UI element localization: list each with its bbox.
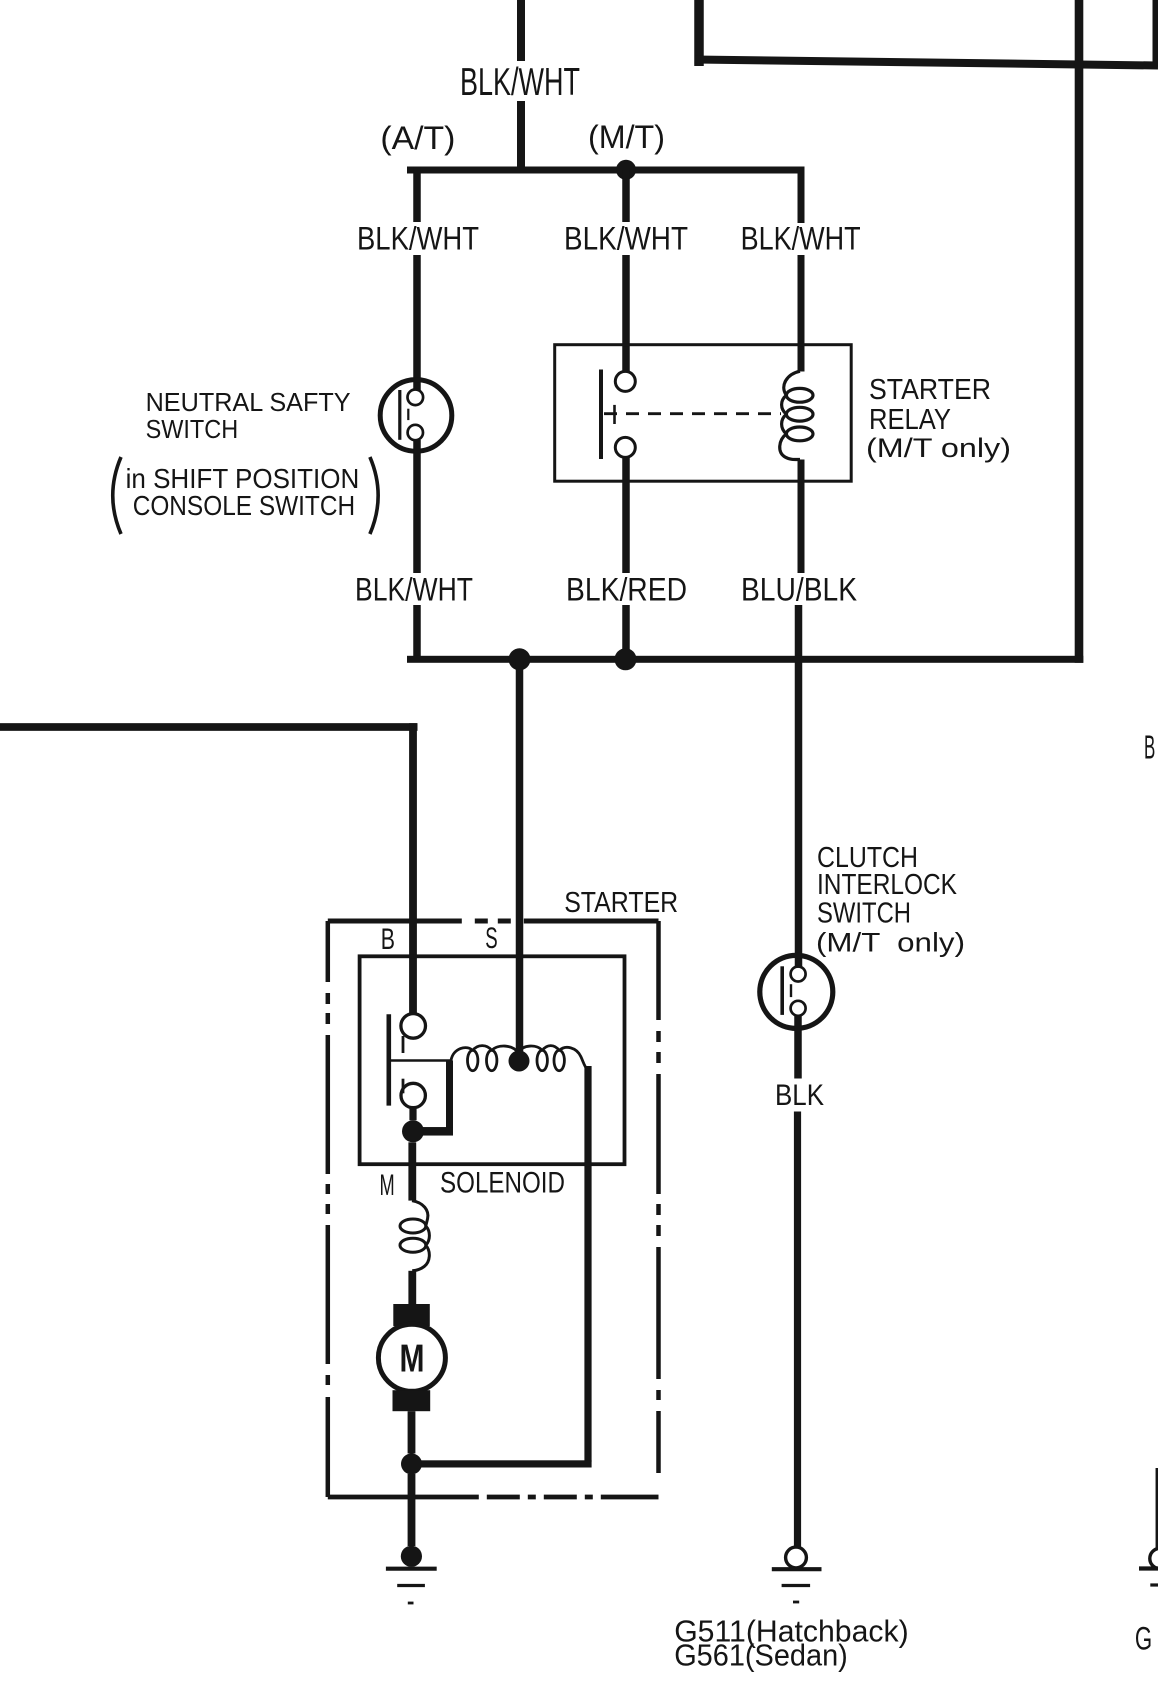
wire right vertical trunk [1075,0,1084,663]
starter enclosure chain-line box [328,921,659,1497]
solenoid pull-in coil [391,1059,451,1062]
svg-text:(M/T only): (M/T only) [816,928,965,958]
wire top-right horizontal to right edge (slight scan tilt) [695,60,1158,66]
wire neutral safety switch to bus [413,440,421,573]
svg-text:B: B [381,923,395,956]
wire A/T branch to neutral safety switch [413,255,421,391]
ground connector circle (right edge, cut) [1150,1548,1158,1568]
svg-text:S: S [485,922,497,955]
junction dot motor return [401,1453,422,1474]
wire relay coil down (BLU/BLK) [798,460,805,574]
svg-text:G: G [1135,1620,1152,1656]
junction dot S wire to coil [509,1051,530,1072]
svg-text:BLK: BLK [775,1079,824,1112]
wire left feed horizontal (battery) [0,723,418,731]
svg-text:RELAY: RELAY [869,404,951,436]
wire M contact to junction [409,1108,416,1121]
svg-text:BLU/BLK: BLU/BLK [741,572,857,608]
relay coil [780,371,813,459]
junction dot BLK/RED at bus [615,648,637,670]
motor field coil [400,1201,429,1271]
wire S terminal from bus to solenoid coil [516,662,524,1061]
clutch interlock switch symbol [760,955,833,1028]
svg-text:SWITCH: SWITCH [146,414,239,444]
junction dot bus to starter S [509,648,531,670]
motor armature [393,1304,430,1326]
bus horizontal A/T-M/T split [407,167,805,174]
parenthesis left (shift position note) [113,457,121,534]
wire ignition feed upper (BLK/WHT) [517,0,525,61]
wire M terminal to field coil [408,1142,416,1200]
solenoid box [360,956,625,1164]
wire M/T branch to relay contact [622,255,630,373]
ground symbol right edge (cut) [1139,1569,1158,1586]
svg-text:SOLENOID: SOLENOID [440,1167,565,1200]
svg-text:CONSOLE SWITCH: CONSOLE SWITCH [133,490,355,521]
wire ignition feed lower [517,101,525,174]
wire BLK to ground [794,1112,801,1548]
wire M/T branch upper stub [622,170,630,222]
svg-text:B: B [1144,728,1155,765]
junction dot M terminal [402,1120,424,1142]
parenthesis right (shift position note) [370,457,378,534]
svg-text:BLK/WHT: BLK/WHT [357,221,479,257]
svg-text:G561(Sedan): G561(Sedan) [674,1638,848,1673]
svg-text:STARTER: STARTER [564,887,678,919]
svg-text:NEUTRAL SAFTY: NEUTRAL SAFTY [146,387,351,417]
svg-text:(M/T): (M/T) [588,119,665,155]
svg-text:(A/T): (A/T) [380,120,455,156]
wire coil output L-shape to M contact [446,1061,453,1136]
bus lower horizontal [407,656,1083,663]
wire to bus left end [413,605,421,659]
wire relay-coil branch upper stub [798,167,805,224]
svg-text:M: M [380,1169,395,1202]
starter relay box [555,345,852,482]
svg-text:M: M [400,1337,425,1380]
svg-text:INTERLOCK: INTERLOCK [817,869,957,901]
wire junction to starter ground [408,1474,416,1546]
wire coil tail down and across to motor [584,1066,591,1462]
wire relay contact down (BLK/RED) [622,457,630,573]
svg-text:STARTER: STARTER [869,374,991,406]
ground connector circle (clutch) [786,1547,807,1568]
wire motor to junction [408,1411,416,1453]
wire BLK/RED to bus junction [622,605,630,659]
junction dot at (M/T) split [616,160,636,180]
ground symbol starter [386,1569,437,1603]
solenoid contacts B and M [389,1014,426,1108]
wire field coil to motor [408,1271,416,1304]
ground symbol clutch G511/G561 [772,1569,822,1602]
wire to relay coil [798,255,805,372]
svg-text:SWITCH: SWITCH [817,898,911,930]
svg-text:BLK/WHT: BLK/WHT [355,572,473,608]
relay actuation dashed line [604,412,781,415]
wire right edge stub to ground (cut off) [1156,1468,1158,1549]
wire battery feed down to starter B terminal [409,723,417,1015]
svg-text:BLK/RED: BLK/RED [566,572,687,608]
wire A/T branch upper stub [413,167,421,223]
wire clutch switch down [794,1016,802,1079]
wire top-right branch vertical [694,0,704,66]
svg-text:BLK/WHT: BLK/WHT [741,221,861,257]
ground connection dot (starter) [401,1546,422,1567]
wire right-edge stub (cut off) [1153,0,1158,66]
relay switch contacts [601,370,635,460]
svg-text:(M/T only): (M/T only) [866,433,1011,463]
wire BLU/BLK through bus to clutch interlock switch [795,605,803,968]
svg-text:BLK/WHT: BLK/WHT [564,221,688,257]
neutral safety switch symbol [380,380,452,452]
svg-text:BLK/WHT: BLK/WHT [460,61,580,104]
